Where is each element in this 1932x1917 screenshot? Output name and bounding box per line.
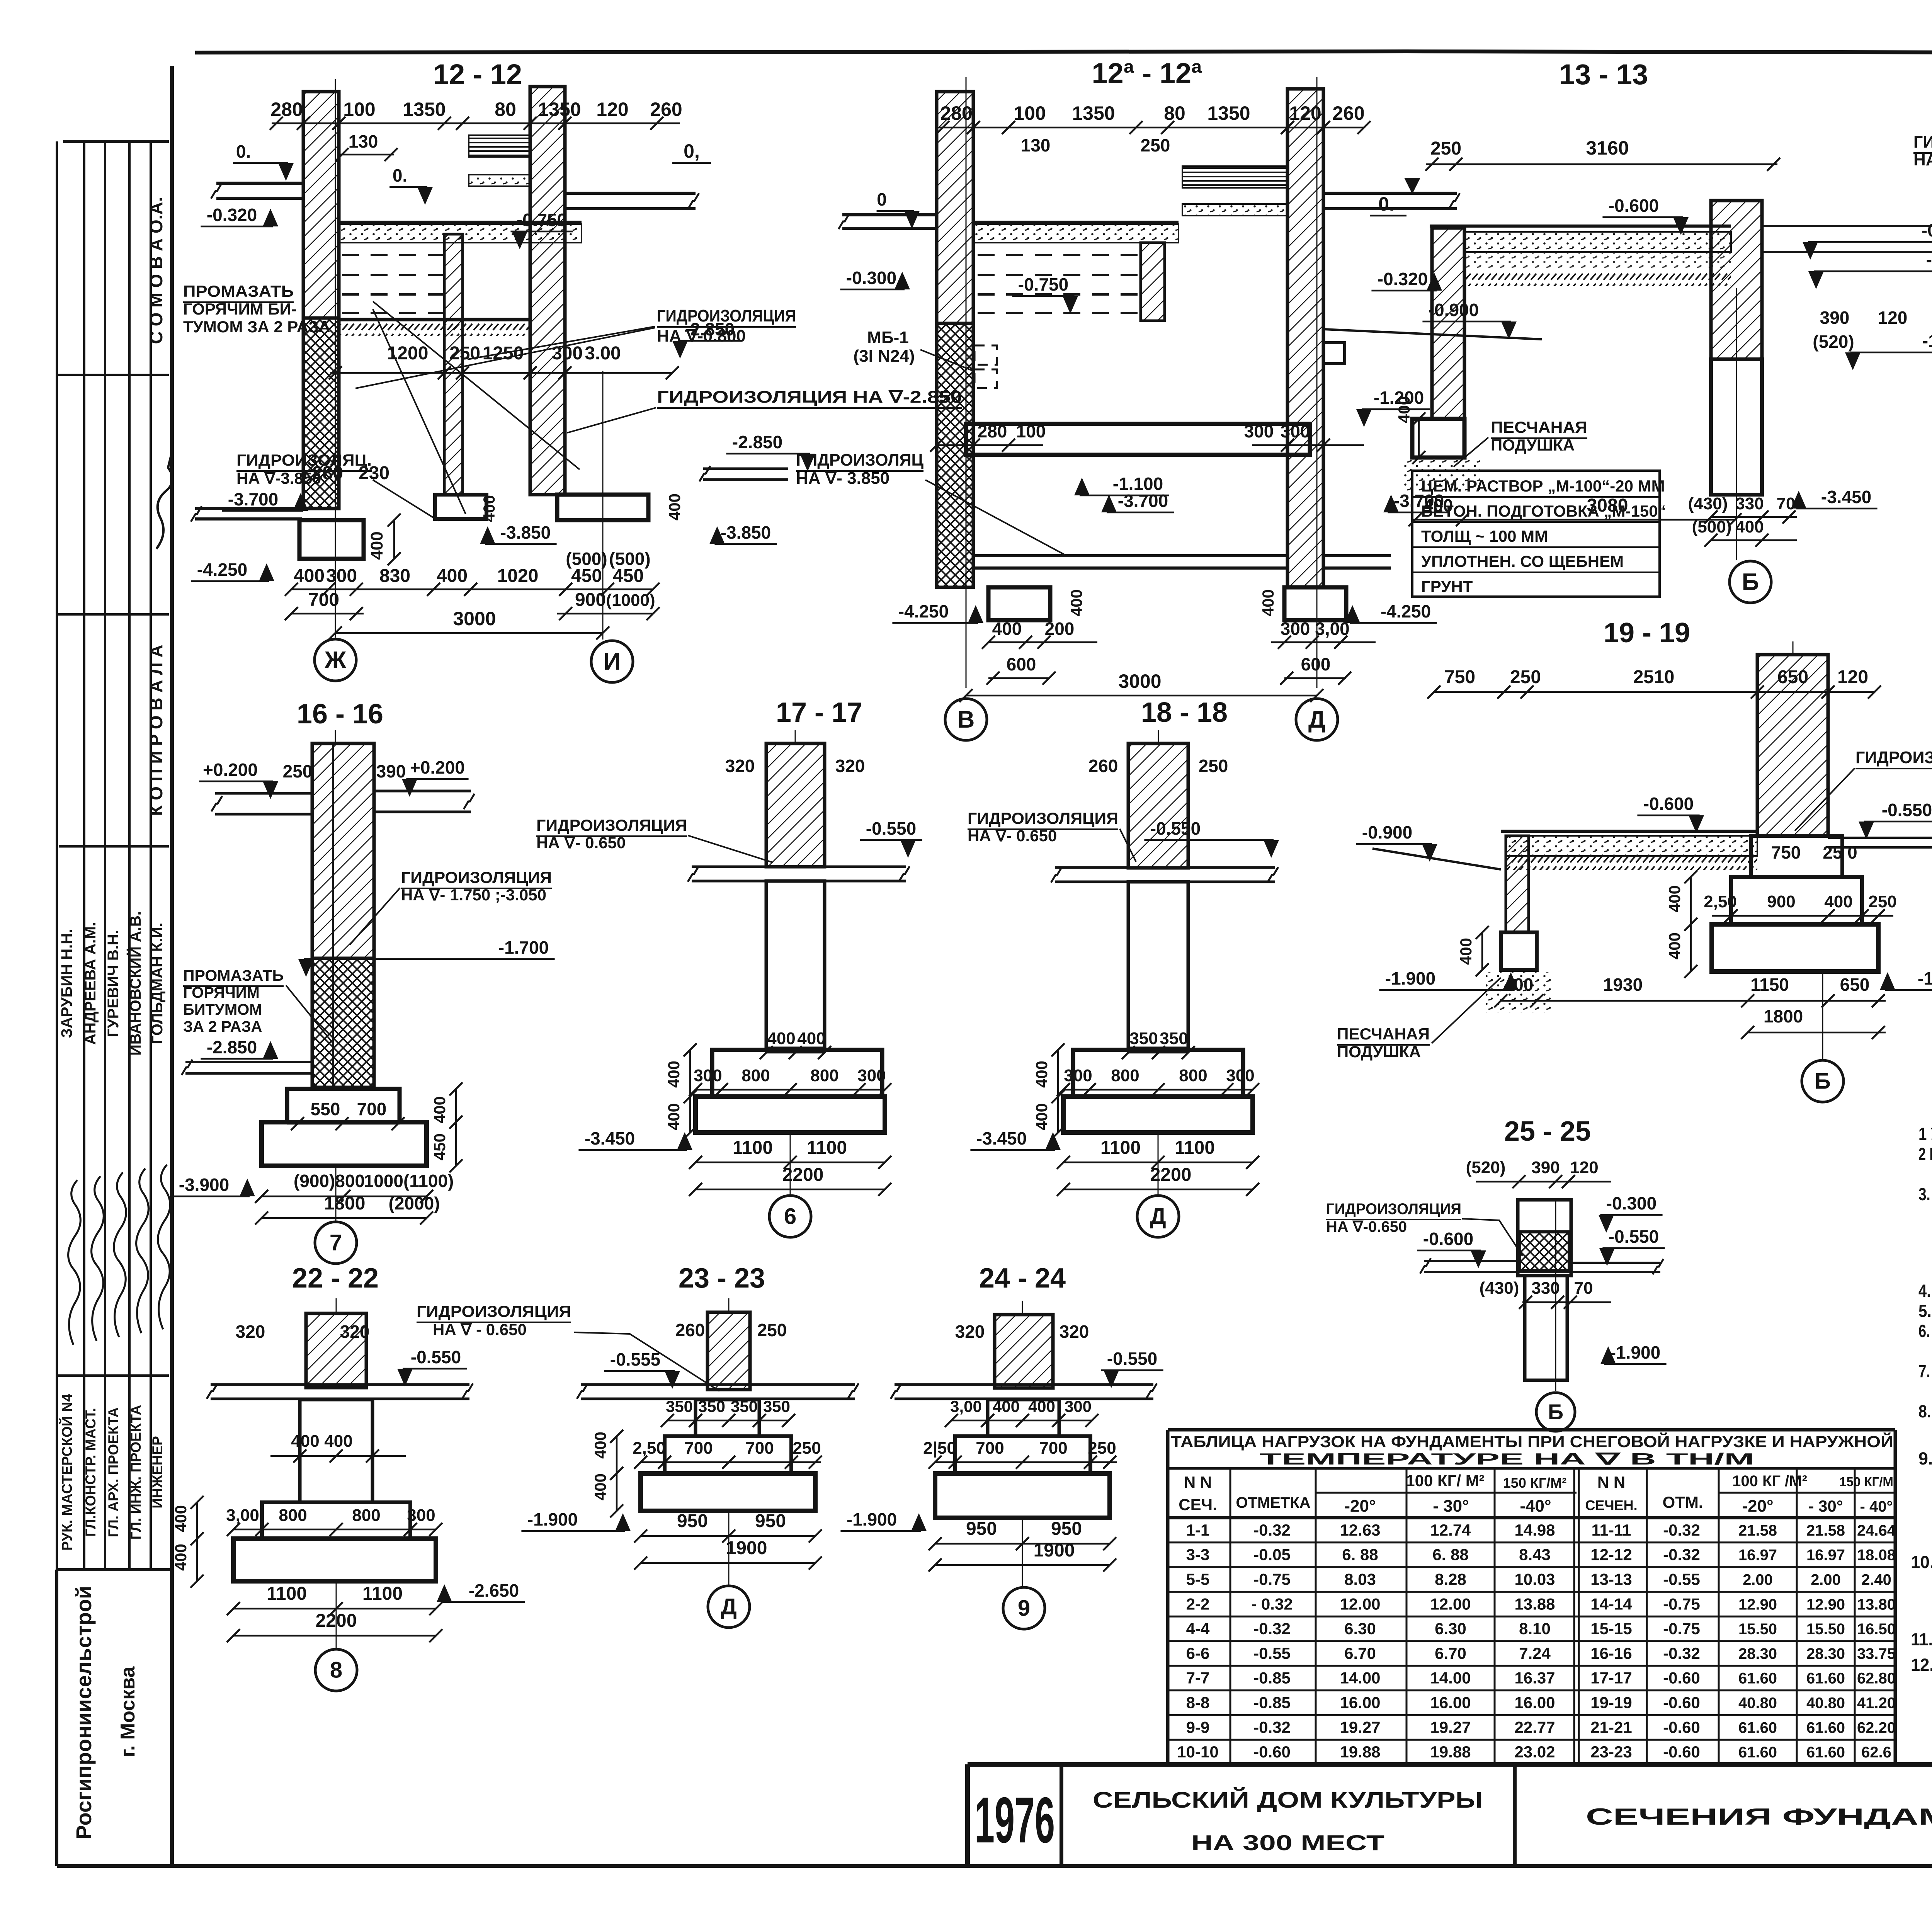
svg-text:-20°: -20°: [1344, 1497, 1376, 1516]
svg-text:СЕЛЬСКИЙ ДОМ КУЛЬТУРЫ: СЕЛЬСКИЙ ДОМ КУЛЬТУРЫ: [1093, 1788, 1483, 1813]
section 12-12 left wall column (hatched): [303, 92, 339, 318]
svg-text:8.43: 8.43: [1519, 1546, 1551, 1564]
section 18-18 footing step: [1073, 1050, 1243, 1097]
svg-text:400: 400: [1665, 885, 1684, 912]
svg-text:11. ПОДПОЛЬНЫЕ КАНАЛЫ ДАНЫ: 11. ПОДПОЛЬНЫЕ КАНАЛЫ ДАНЫ ДЛЯ БЕСПУСТОТ…: [1911, 1630, 1932, 1649]
section 12a-12a footing dims 300/300 600 right: [1271, 641, 1376, 643]
section 24-24 shaft: [988, 1400, 1059, 1436]
svg-text:РУК. МАСТЕРСКОЙ N4: РУК. МАСТЕРСКОЙ N4: [59, 1394, 75, 1551]
section 12a-12a top dimension row: [939, 127, 1364, 129]
section 19-19 main footing mid tier: [1731, 877, 1862, 924]
svg-text:100: 100: [1014, 102, 1046, 124]
svg-text:150 КГ/М: 150 КГ/М: [1839, 1475, 1893, 1489]
svg-text:320: 320: [835, 756, 865, 776]
svg-text:-4.250: -4.250: [898, 601, 949, 621]
svg-text:260: 260: [650, 99, 682, 120]
svg-text:-0.300: -0.300: [1922, 220, 1932, 240]
section 12-12 middle thin wall (hatched): [444, 234, 463, 495]
svg-text:800: 800: [352, 1506, 380, 1525]
section 12a-12a left wall column (hatched): [937, 92, 973, 323]
svg-text:19 - 19: 19 - 19: [1604, 617, 1690, 648]
svg-text:ИНЖЕНЕР: ИНЖЕНЕР: [150, 1436, 165, 1509]
svg-text:0,: 0,: [684, 140, 700, 162]
svg-text:400: 400: [1395, 396, 1413, 423]
svg-text:260: 260: [675, 1320, 705, 1340]
section 13-13 right column hatched above ground: [1711, 201, 1762, 359]
section 17-17 shaft: [766, 881, 825, 1048]
svg-text:8.03: 8.03: [1344, 1570, 1376, 1589]
sidebar signature squiggle: [156, 452, 172, 549]
svg-text:14.00: 14.00: [1340, 1669, 1380, 1687]
svg-text:33.75: 33.75: [1857, 1645, 1896, 1662]
svg-text:16 - 16: 16 - 16: [297, 699, 383, 730]
svg-text:ГИДРОИЗОЛЯЦИЯ НА ∇-2.850: ГИДРОИЗОЛЯЦИЯ НА ∇-2.850: [657, 388, 962, 407]
section 22-22 footing slab: [233, 1539, 436, 1581]
svg-text:УПЛОТНЕН. СО ЩЕБНЕМ: УПЛОТНЕН. СО ЩЕБНЕМ: [1421, 552, 1624, 570]
section 12-12 top dimension row 280/100/1350/80/1350/120/260: [272, 122, 680, 124]
svg-text:ПЕСЧАНАЯ: ПЕСЧАНАЯ: [1337, 1025, 1430, 1043]
svg-text:300: 300: [1065, 1397, 1092, 1415]
svg-text:250: 250: [283, 761, 313, 781]
svg-text:320: 320: [725, 756, 755, 776]
svg-text:1000(1100): 1000(1100): [364, 1171, 454, 1191]
svg-text:-0.600: -0.600: [1609, 196, 1659, 216]
svg-text:130: 130: [1021, 135, 1051, 155]
svg-text:5. ФУНДАМЕНТЫ БУТОБЕТОННЫЕ: 5. ФУНДАМЕНТЫ БУТОБЕТОННЫЕ ИЗ БУТА „М-15…: [1918, 1301, 1932, 1321]
svg-text:-1.900: -1.900: [527, 1509, 578, 1529]
svg-text:(3I N24): (3I N24): [854, 347, 915, 366]
load table grid: [1168, 1428, 1895, 1432]
svg-text:1976: 1976: [975, 1784, 1055, 1856]
section 19-19 floor slab: [1501, 830, 1757, 833]
svg-text:-3.450: -3.450: [1821, 487, 1871, 507]
svg-text:- 30°: - 30°: [1808, 1497, 1843, 1515]
svg-text:15-15: 15-15: [1590, 1619, 1632, 1638]
svg-text:390: 390: [1820, 308, 1850, 328]
svg-text:120: 120: [596, 99, 628, 120]
section 12a-12a right floor slab: [1323, 192, 1457, 195]
svg-text:1930: 1930: [1603, 975, 1643, 995]
svg-text:(430): (430): [1480, 1279, 1519, 1298]
section 19-19 main wall column (hatched): [1757, 655, 1828, 836]
section 12a-12a footing dims 400/200 600: [988, 641, 1097, 643]
svg-text:400: 400: [172, 1505, 190, 1532]
svg-text:300: 300: [1281, 619, 1310, 639]
section 17-17 floors: [692, 866, 906, 868]
svg-text:-0.550: -0.550: [1882, 800, 1932, 820]
svg-text:2-2: 2-2: [1186, 1595, 1210, 1613]
svg-text:8.10: 8.10: [1519, 1619, 1551, 1638]
section 12a-12a parquet striped band: [1182, 166, 1287, 188]
section 16-16 footing step 1: [287, 1089, 400, 1122]
svg-text:9: 9: [1018, 1596, 1030, 1621]
svg-text:16-16: 16-16: [1590, 1644, 1632, 1662]
svg-text:250: 250: [1510, 667, 1541, 687]
svg-text:4-4: 4-4: [1186, 1619, 1210, 1638]
svg-text:260: 260: [1088, 756, 1118, 776]
section 16-16 wall column (hatched): [312, 743, 374, 958]
sidebar signatures (handwritten): [68, 1180, 81, 1345]
svg-text:19.27: 19.27: [1430, 1718, 1471, 1736]
svg-text:400: 400: [1032, 1061, 1051, 1088]
svg-text:1350: 1350: [403, 99, 446, 120]
svg-text:ПОДУШКА: ПОДУШКА: [1337, 1043, 1421, 1061]
svg-text:17 - 17: 17 - 17: [776, 697, 862, 728]
svg-text:6. 88: 6. 88: [1342, 1546, 1378, 1564]
svg-text:120: 120: [1878, 308, 1908, 328]
svg-text:40.80: 40.80: [1738, 1695, 1777, 1712]
sidebar stamp column: [56, 141, 58, 1570]
svg-text:13 - 13: 13 - 13: [1559, 58, 1648, 90]
svg-text:100: 100: [1016, 421, 1046, 441]
svg-text:13.88: 13.88: [1514, 1595, 1555, 1613]
svg-text:1200: 1200: [387, 343, 429, 364]
svg-text:-0.750: -0.750: [517, 210, 567, 230]
section 12-12 left wall below ground (cross-hatched): [303, 318, 339, 509]
svg-text:ГИДРОИЗОЛЯЦИЯ: ГИДРОИЗОЛЯЦИЯ: [968, 809, 1118, 827]
svg-text:700: 700: [976, 1439, 1004, 1458]
svg-text:ГОРЯЧИМ: ГОРЯЧИМ: [183, 984, 260, 1001]
svg-text:250: 250: [793, 1439, 821, 1458]
svg-text:320: 320: [340, 1322, 370, 1342]
svg-text:400: 400: [1028, 1397, 1055, 1415]
svg-text:-0.55: -0.55: [1253, 1644, 1291, 1662]
svg-text:300: 300: [407, 1506, 435, 1525]
svg-text:8: 8: [330, 1658, 342, 1683]
section 12a-12a basement slab (speckled): [973, 221, 1179, 224]
svg-text:5-5: 5-5: [1186, 1570, 1210, 1589]
section 22-22 footing tier: [262, 1502, 410, 1539]
svg-text:61.60: 61.60: [1806, 1719, 1845, 1736]
svg-text:250: 250: [449, 343, 480, 364]
svg-text:3,00: 3,00: [950, 1397, 982, 1415]
section 18-18 wall column (hatched): [1128, 743, 1188, 868]
svg-text:6.70: 6.70: [1435, 1644, 1466, 1662]
svg-text:-0.75: -0.75: [1663, 1595, 1700, 1613]
svg-text:300: 300: [1226, 1066, 1254, 1085]
section 22-22 shaft: [300, 1400, 372, 1502]
svg-text:400: 400: [1259, 589, 1277, 616]
svg-text:12-12: 12-12: [1590, 1546, 1632, 1564]
section 25-25 shaft below floor: [1525, 1276, 1567, 1380]
svg-text:400: 400: [767, 1029, 795, 1048]
section 12a-12a left footing: [988, 587, 1050, 620]
section 16-16 floors: [215, 792, 312, 795]
svg-text:23 - 23: 23 - 23: [679, 1263, 765, 1294]
svg-text:-0.32: -0.32: [1253, 1521, 1291, 1539]
svg-text:2200: 2200: [1150, 1165, 1192, 1185]
svg-text:N N: N N: [1597, 1473, 1625, 1491]
page frame top border: [195, 51, 1406, 53]
svg-text:-1.900: -1.900: [847, 1509, 897, 1529]
svg-text:И: И: [604, 648, 621, 675]
svg-text:1350: 1350: [1207, 102, 1250, 124]
section 12a-12a insulation dashed layers: [978, 254, 1138, 256]
section 12-12 middle footing: [435, 495, 486, 519]
svg-text:(500): (500): [566, 549, 607, 569]
svg-text:-3.700: -3.700: [1118, 491, 1168, 511]
svg-text:-0.32: -0.32: [1663, 1546, 1700, 1564]
svg-text:400: 400: [437, 566, 468, 586]
svg-text:400: 400: [665, 493, 684, 520]
svg-text:400: 400: [993, 1397, 1020, 1415]
svg-text:2.00: 2.00: [1811, 1572, 1841, 1589]
svg-text:(2000): (2000): [389, 1193, 440, 1213]
section 12-12 axis Ж line: [335, 79, 336, 638]
svg-text:21.58: 21.58: [1806, 1522, 1845, 1539]
svg-text:Д: Д: [1150, 1204, 1166, 1229]
svg-text:-0.32: -0.32: [1663, 1644, 1700, 1662]
svg-text:-3.700: -3.700: [228, 489, 278, 509]
svg-text:НА 300 МЕСТ: НА 300 МЕСТ: [1191, 1830, 1384, 1855]
svg-text:3160: 3160: [1586, 137, 1629, 159]
svg-text:400: 400: [665, 1103, 683, 1130]
svg-text:+0.200: +0.200: [203, 760, 258, 780]
svg-text:400: 400: [1665, 932, 1684, 959]
svg-text:6. 88: 6. 88: [1432, 1546, 1468, 1564]
svg-text:-0.75: -0.75: [1253, 1570, 1291, 1589]
section 19-19 main footing slab: [1712, 924, 1878, 971]
svg-text:-4.250: -4.250: [197, 560, 247, 580]
svg-text:ОТМ.: ОТМ.: [1663, 1493, 1703, 1511]
svg-text:К О П И Р О В А Л А: К О П И Р О В А Л А: [146, 645, 166, 816]
svg-text:700: 700: [684, 1439, 713, 1458]
section 12-12 insulation dashed layers: [342, 254, 444, 256]
section 17-17 footing slab: [696, 1097, 885, 1133]
section 13-13 axis circle Б: [1736, 288, 1737, 560]
svg-text:900: 900: [1767, 892, 1795, 911]
svg-text:15.50: 15.50: [1806, 1621, 1845, 1638]
svg-text:N N: N N: [1184, 1473, 1212, 1491]
svg-text:830: 830: [379, 566, 410, 586]
svg-text:150 КГ/М²: 150 КГ/М²: [1503, 1475, 1566, 1491]
svg-text:1-1: 1-1: [1186, 1521, 1210, 1539]
svg-text:(430): (430): [1688, 494, 1728, 513]
section 12a-12a axis lines: [966, 77, 967, 688]
svg-text:13-13: 13-13: [1590, 1570, 1632, 1589]
svg-text:70: 70: [1777, 494, 1796, 513]
svg-text:400: 400: [1067, 589, 1085, 616]
section 19-19 axis circle Б: [1822, 971, 1823, 1060]
svg-text:250: 250: [1199, 756, 1228, 776]
svg-text:ГОРЯЧИМ БИ-: ГОРЯЧИМ БИ-: [183, 300, 297, 318]
svg-text:ИВАНОВСКИЙ А.В.: ИВАНОВСКИЙ А.В.: [126, 911, 144, 1056]
svg-text:100 КГ/ М²: 100 КГ/ М²: [1406, 1471, 1485, 1490]
section 13-13 left footing: [1412, 419, 1464, 458]
svg-text:2510: 2510: [1633, 667, 1675, 687]
section 12a-12a basement floor -3.700: [973, 554, 1287, 557]
section 25-25 floors: [1424, 1260, 1518, 1262]
svg-text:2200: 2200: [782, 1165, 824, 1185]
svg-text:10. ПРИ ПРОИЗВОДСТВЕ РАБОТ: 10. ПРИ ПРОИЗВОДСТВЕ РАБОТ В ЗИМНИХ УСЛО…: [1911, 1552, 1932, 1572]
svg-text:1020: 1020: [497, 566, 539, 586]
svg-text:12.00: 12.00: [1340, 1595, 1380, 1613]
svg-text:-0.60: -0.60: [1663, 1669, 1700, 1687]
svg-text:7: 7: [330, 1230, 342, 1255]
svg-text:900: 900: [575, 590, 606, 610]
svg-text:1350: 1350: [1072, 102, 1115, 124]
svg-text:24 - 24: 24 - 24: [979, 1263, 1066, 1294]
svg-text:400: 400: [1457, 938, 1475, 965]
svg-text:0: 0: [877, 189, 887, 209]
svg-text:АНДРЕЕВА А.М.: АНДРЕЕВА А.М.: [82, 922, 99, 1045]
section 19-19 left ground slope and level -0.900: [1372, 849, 1501, 869]
svg-text:400: 400: [1735, 517, 1764, 536]
svg-text:-0.600: -0.600: [1423, 1229, 1473, 1249]
svg-text:18.08: 18.08: [1857, 1547, 1896, 1564]
section 12a-12a left floor slab: [842, 213, 937, 216]
section 16-16 axis circle 7: [335, 1166, 337, 1221]
svg-text:12ª - 12ª: 12ª - 12ª: [1092, 57, 1202, 89]
svg-text:ПЕСЧАНАЯ: ПЕСЧАНАЯ: [1491, 418, 1587, 436]
svg-text:-0.60: -0.60: [1253, 1743, 1291, 1761]
svg-text:НА ∇-0.800: НА ∇-0.800: [657, 327, 746, 345]
svg-text:1800: 1800: [1764, 1006, 1803, 1026]
svg-text:16.97: 16.97: [1806, 1547, 1845, 1564]
section 17-17 footing step: [712, 1050, 882, 1097]
svg-text:-20°: -20°: [1742, 1497, 1773, 1516]
svg-text:16.50: 16.50: [1857, 1621, 1896, 1638]
svg-text:400: 400: [430, 1096, 449, 1123]
svg-text:6.30: 6.30: [1435, 1619, 1466, 1638]
svg-text:390: 390: [1531, 1158, 1560, 1177]
svg-text:-4.250: -4.250: [1381, 601, 1431, 621]
svg-text:- 30°: - 30°: [1433, 1497, 1469, 1516]
svg-text:Б: Б: [1548, 1400, 1563, 1424]
section 18-18 footing slab: [1063, 1097, 1253, 1133]
svg-text:Д: Д: [1308, 706, 1325, 733]
svg-text:НА ∇ - 0.650: НА ∇ - 0.650: [433, 1320, 527, 1339]
svg-text:(500): (500): [1692, 517, 1732, 536]
svg-text:7-7: 7-7: [1186, 1669, 1210, 1687]
svg-text:ГИДРОИЗОЛЯЦИЯ НА ∇- 0.650: ГИДРОИЗОЛЯЦИЯ НА ∇- 0.650: [1855, 748, 1932, 767]
section 25-25 axis circle Б: [1555, 1200, 1556, 1391]
svg-text:0.: 0.: [1378, 193, 1395, 215]
section 17-17 axis circle 6: [790, 1133, 791, 1195]
svg-text:-0.05: -0.05: [1253, 1546, 1291, 1564]
svg-text:40.80: 40.80: [1806, 1695, 1845, 1712]
svg-text:16.00: 16.00: [1340, 1694, 1380, 1712]
svg-text:41.20: 41.20: [1857, 1695, 1896, 1712]
svg-text:6: 6: [784, 1204, 796, 1229]
svg-text:-0.750: -0.750: [1018, 274, 1068, 294]
section 12a-12a corbel on right wall: [1323, 343, 1345, 364]
svg-text:3,00: 3,00: [226, 1506, 259, 1525]
svg-text:300: 300: [552, 343, 583, 364]
svg-text:ЗА 2 РАЗА: ЗА 2 РАЗА: [183, 1018, 262, 1035]
svg-text:НА ∇- 0.650: НА ∇- 0.650: [968, 827, 1057, 845]
svg-text:6.30: 6.30: [1344, 1619, 1376, 1638]
svg-text:- 40°: - 40°: [1860, 1498, 1893, 1515]
svg-text:СЕЧ.: СЕЧ.: [1179, 1495, 1217, 1514]
section 13-13 floor slab layers: [1430, 225, 1731, 228]
svg-text:16.00: 16.00: [1514, 1694, 1555, 1712]
svg-text:800: 800: [1111, 1066, 1139, 1085]
svg-text:400: 400: [665, 1061, 683, 1088]
svg-text:-3.850: -3.850: [721, 522, 771, 543]
section 25-25 column cross-hatched band: [1520, 1232, 1569, 1271]
svg-text:600: 600: [1007, 654, 1036, 674]
svg-text:13.80: 13.80: [1857, 1596, 1896, 1613]
svg-text:700: 700: [357, 1099, 387, 1119]
svg-text:8-8: 8-8: [1186, 1694, 1210, 1712]
svg-text:Д: Д: [721, 1594, 736, 1619]
section 24-24 floors: [895, 1383, 1153, 1386]
svg-text:320: 320: [1060, 1322, 1089, 1342]
svg-text:320: 320: [236, 1322, 265, 1342]
svg-text:6-6: 6-6: [1186, 1644, 1210, 1662]
svg-text:400: 400: [1504, 975, 1534, 995]
svg-text:ТАБЛИЦА НАГРУЗОК НА ФУНДА: ТАБЛИЦА НАГРУЗОК НА ФУНДАМЕНТЫ ПРИ СНЕГО…: [1171, 1432, 1893, 1451]
svg-text:400: 400: [172, 1544, 190, 1571]
svg-text:10-10: 10-10: [1177, 1743, 1218, 1761]
section 12a-12a ground slope and level -0.900: [1323, 329, 1542, 339]
section 12-12 right footing: [557, 495, 648, 520]
svg-text:12.63: 12.63: [1340, 1521, 1380, 1539]
svg-text:- 0.32: - 0.32: [1251, 1595, 1293, 1613]
section 23-23 shaft: [696, 1400, 759, 1436]
svg-text:-1.700: -1.700: [498, 937, 549, 958]
svg-text:62.20: 62.20: [1857, 1719, 1896, 1736]
svg-text:6.70: 6.70: [1344, 1644, 1376, 1662]
section 23-23 footing slab: [641, 1473, 815, 1511]
svg-text:250: 250: [757, 1320, 787, 1340]
section 12a-12a big floor beam МБ-1: [966, 424, 1310, 455]
svg-text:ГЛ.КОНСТР. МАСТ.: ГЛ.КОНСТР. МАСТ.: [83, 1408, 99, 1537]
svg-text:61.60: 61.60: [1806, 1670, 1845, 1687]
svg-text:19.88: 19.88: [1430, 1743, 1471, 1761]
svg-text:-0.550: -0.550: [1107, 1349, 1157, 1369]
svg-text:ТЕМПЕРАТУРЕ НА ∇: ТЕМПЕРАТУРЕ НА ∇ В ТН/М: [1260, 1450, 1754, 1468]
svg-text:22.77: 22.77: [1514, 1718, 1555, 1736]
svg-text:-0.60: -0.60: [1663, 1743, 1700, 1761]
svg-text:1100: 1100: [807, 1138, 847, 1158]
svg-text:2 ПО УГЛАМ ЗДАНИЯ В ЧИСЛИ: 2 ПО УГЛАМ ЗДАНИЯ В ЧИСЛИТЕЛЕ ДАЮТСЯ ПРИ…: [1918, 1144, 1932, 1164]
svg-text:-40°: -40°: [1520, 1497, 1551, 1516]
svg-text:-2.850: -2.850: [732, 432, 782, 452]
svg-text:1800: 1800: [324, 1193, 366, 1214]
svg-text:-3.450: -3.450: [976, 1128, 1027, 1148]
svg-text:МБ-1: МБ-1: [867, 328, 908, 347]
svg-text:61.60: 61.60: [1806, 1744, 1845, 1761]
svg-text:62.6: 62.6: [1861, 1744, 1891, 1761]
svg-text:СЕЧЕНИЯ ФУНДАМЕНТОВ 12-: СЕЧЕНИЯ ФУНДАМЕНТОВ 12-25: [1586, 1804, 1932, 1830]
svg-text:100: 100: [343, 99, 375, 120]
svg-text:НА ∇-3.850: НА ∇-3.850: [236, 469, 321, 487]
section 19-19 right floor: [1828, 837, 1932, 839]
section 12-12 axis circle И: [591, 641, 633, 682]
section 12-12 basement floor at -3.700: [195, 507, 302, 510]
svg-text:-2.650: -2.650: [469, 1580, 519, 1601]
svg-text:750: 750: [1444, 667, 1475, 687]
svg-text:1100: 1100: [1175, 1138, 1215, 1158]
svg-text:-3.900: -3.900: [179, 1175, 229, 1195]
svg-text:-0.32: -0.32: [1253, 1619, 1291, 1638]
svg-text:21.58: 21.58: [1738, 1522, 1777, 1539]
svg-text:ГИДРОИЗОЛЯЦИЯ: ГИДРОИЗОЛЯЦИЯ: [417, 1302, 571, 1320]
svg-text:7. КЛАДКА ПОДПОЛЬНЫХ КАНАЛО: 7. КЛАДКА ПОДПОЛЬНЫХ КАНАЛОВ ПРОИЗВОДИТС…: [1918, 1361, 1932, 1381]
svg-text:70: 70: [1574, 1279, 1593, 1298]
svg-text:350: 350: [731, 1397, 758, 1415]
svg-text:550: 550: [311, 1099, 340, 1119]
svg-text:ГИДРОИЗОЛЯЦИЯ: ГИДРОИЗОЛЯЦИЯ: [657, 306, 796, 325]
svg-text:450: 450: [430, 1133, 449, 1160]
svg-text:ГУРЕВИЧ В.Н.: ГУРЕВИЧ В.Н.: [105, 930, 122, 1037]
svg-text:ГИДРОИЗОЛЯЦ.: ГИДРОИЗОЛЯЦ.: [236, 451, 372, 469]
svg-text:Росгипрониисельстрой: Росгипрониисельстрой: [71, 1586, 96, 1840]
svg-text:1250: 1250: [483, 343, 524, 364]
section 12-12 left footing: [299, 520, 364, 559]
